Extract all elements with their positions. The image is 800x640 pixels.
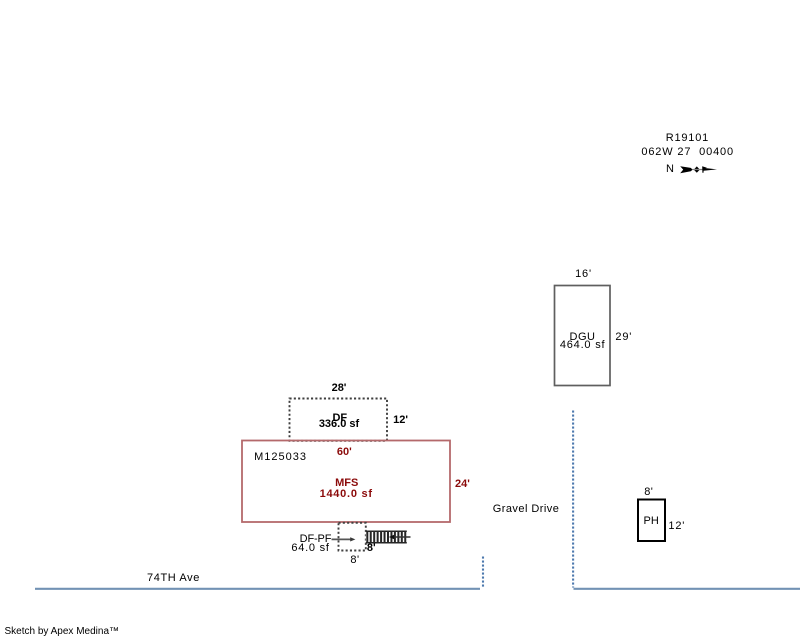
label M125033 <box>254 452 307 463</box>
gravel drive west edge dashed <box>482 557 484 588</box>
dimension 24' <box>455 479 470 490</box>
label 062W 27 00400 <box>641 147 734 158</box>
north arrow symbol <box>680 166 717 173</box>
label 64.0 sf <box>291 543 329 554</box>
label DF-PF <box>300 534 332 545</box>
road line right segment <box>574 588 800 590</box>
gravel drive east edge dashed <box>572 411 574 588</box>
building DF dashed outline <box>290 399 388 441</box>
label PH <box>644 516 659 527</box>
label MFS <box>335 478 358 489</box>
dimension 8' PH <box>644 487 653 498</box>
DF-PF pointer arrow <box>332 537 356 541</box>
footer Sketch by Apex Medina <box>5 627 120 637</box>
dimension 16' <box>575 269 592 280</box>
dimension 60' <box>337 447 352 458</box>
dimension 28' <box>332 383 347 394</box>
label R19101 <box>666 133 709 144</box>
road 74TH Ave line <box>35 588 480 590</box>
road label Gravel Drive <box>493 504 560 515</box>
label 1440.0 sf <box>320 489 373 500</box>
dimension 12' <box>393 415 408 426</box>
dimension 12' PH <box>668 521 685 532</box>
label DF <box>332 413 347 424</box>
label N <box>666 164 674 175</box>
dimension 8' stairs <box>367 543 376 554</box>
label 464.0 sf <box>560 340 606 351</box>
stairs direction arrow <box>389 535 411 540</box>
building MFS outline <box>242 441 450 523</box>
road label 74TH Ave <box>147 573 200 584</box>
dimension 29' <box>615 332 632 343</box>
building DGU outline <box>555 286 611 386</box>
stairs symbol <box>366 531 407 544</box>
building PH outline <box>638 500 665 542</box>
building DF-PF dashed outline <box>339 523 366 551</box>
dimension 8' below <box>350 555 359 566</box>
label 336.0 sf <box>319 419 359 430</box>
label DGU <box>570 332 596 343</box>
